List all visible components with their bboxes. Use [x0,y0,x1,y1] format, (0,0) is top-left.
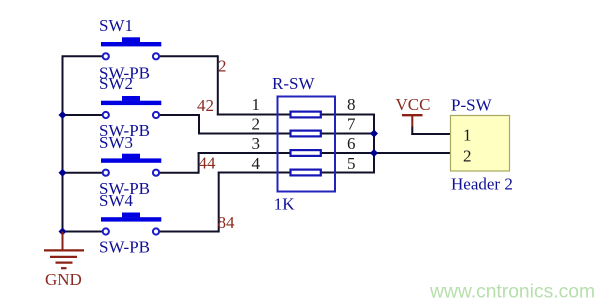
wire: right bus vertical joining pins 8-5 [373,114,375,174]
junction on left bus at SW4 [59,228,67,236]
wire: header pin 2 lead from right bus [374,152,451,154]
resistor network R-SW box [278,97,336,192]
net label 44 [199,154,217,173]
svg-text:SW4: SW4 [99,191,134,210]
label R-SW [272,74,315,93]
pin number 6 [347,134,356,153]
label Header 2 [451,175,513,194]
label 1K [274,195,296,214]
wire: SW3 right lead to vertical rise [160,153,199,174]
svg-text:www.cntronics.com: www.cntronics.com [429,282,595,303]
svg-text:1: 1 [463,126,472,145]
switch SW1 [99,16,161,82]
label P-SW [451,96,493,115]
pin number 3 [252,134,261,153]
pin number 5 [347,154,356,173]
wire: SW4 right lead to vertical rise [160,173,219,233]
wire: left bus vertical from SW1 row to SW4 row [62,56,64,231]
pin number 1 (header) [463,126,472,145]
wire: SW1 right lead to vertical drop [160,55,218,114]
net label 2 [218,57,227,76]
svg-text:1K: 1K [274,195,296,214]
svg-text:3: 3 [252,134,261,153]
svg-text:P-SW: P-SW [451,96,493,115]
svg-text:4: 4 [252,154,261,173]
watermark www.cntronics.com [429,282,595,303]
svg-text:GND: GND [45,270,82,289]
resistor R4 (row 4) [291,170,321,176]
wire: header pin 1 lead from VCC [411,133,450,135]
svg-text:8: 8 [347,95,356,114]
junction on left bus at SW2 [59,111,67,119]
switch SW3 [99,133,161,198]
net label 84 [218,213,236,232]
wire: SW3 left lead [63,172,103,174]
svg-text:SW-PB: SW-PB [99,238,150,257]
pin number 4 [252,154,261,173]
resistor R1 (row 1) [291,112,321,118]
wire: resistor pin 2 row [198,133,374,135]
wire: resistor pin 4 row [218,172,374,174]
wire: SW2 left lead [63,114,103,116]
svg-text:84: 84 [218,213,236,232]
svg-text:SW3: SW3 [99,133,133,152]
svg-text:5: 5 [347,154,356,173]
switch SW2 [99,74,161,140]
pin number 7 [347,115,356,134]
junction on right bus at pin 6 [370,149,378,157]
connector P-SW header box [451,116,510,172]
junction on left bus at SW3 [59,169,67,177]
svg-text:VCC: VCC [396,95,431,114]
svg-text:7: 7 [347,115,356,134]
pin number 1 [252,95,261,114]
pin number 8 [347,95,356,114]
resistor R3 (row 3) [291,150,321,156]
pin number 2 [252,115,261,134]
net label 42 [197,96,214,115]
wire: SW2 right lead to vertical drop [160,114,199,134]
svg-text:Header 2: Header 2 [451,175,513,194]
svg-text:2: 2 [252,115,261,134]
pin number 2 (header) [463,147,472,166]
ground symbol GND [44,232,84,289]
svg-text:SW1: SW1 [99,16,133,35]
junction on right bus at pin 7 [370,130,378,138]
svg-text:SW2: SW2 [99,74,133,93]
svg-text:2: 2 [218,57,227,76]
svg-text:2: 2 [463,147,472,166]
svg-text:44: 44 [199,154,217,173]
svg-text:42: 42 [197,96,214,115]
wire: resistor pin 3 row [198,152,374,154]
wire: resistor pin 1 row [217,114,374,116]
wire: SW1 left lead [62,55,103,57]
svg-text:6: 6 [347,134,356,153]
switch SW4 [99,191,161,257]
resistor R2 (row 2) [291,131,321,137]
svg-text:R-SW: R-SW [272,74,315,93]
svg-text:1: 1 [252,95,261,114]
power VCC symbol [396,95,431,135]
wire: SW4 left lead [63,231,103,233]
